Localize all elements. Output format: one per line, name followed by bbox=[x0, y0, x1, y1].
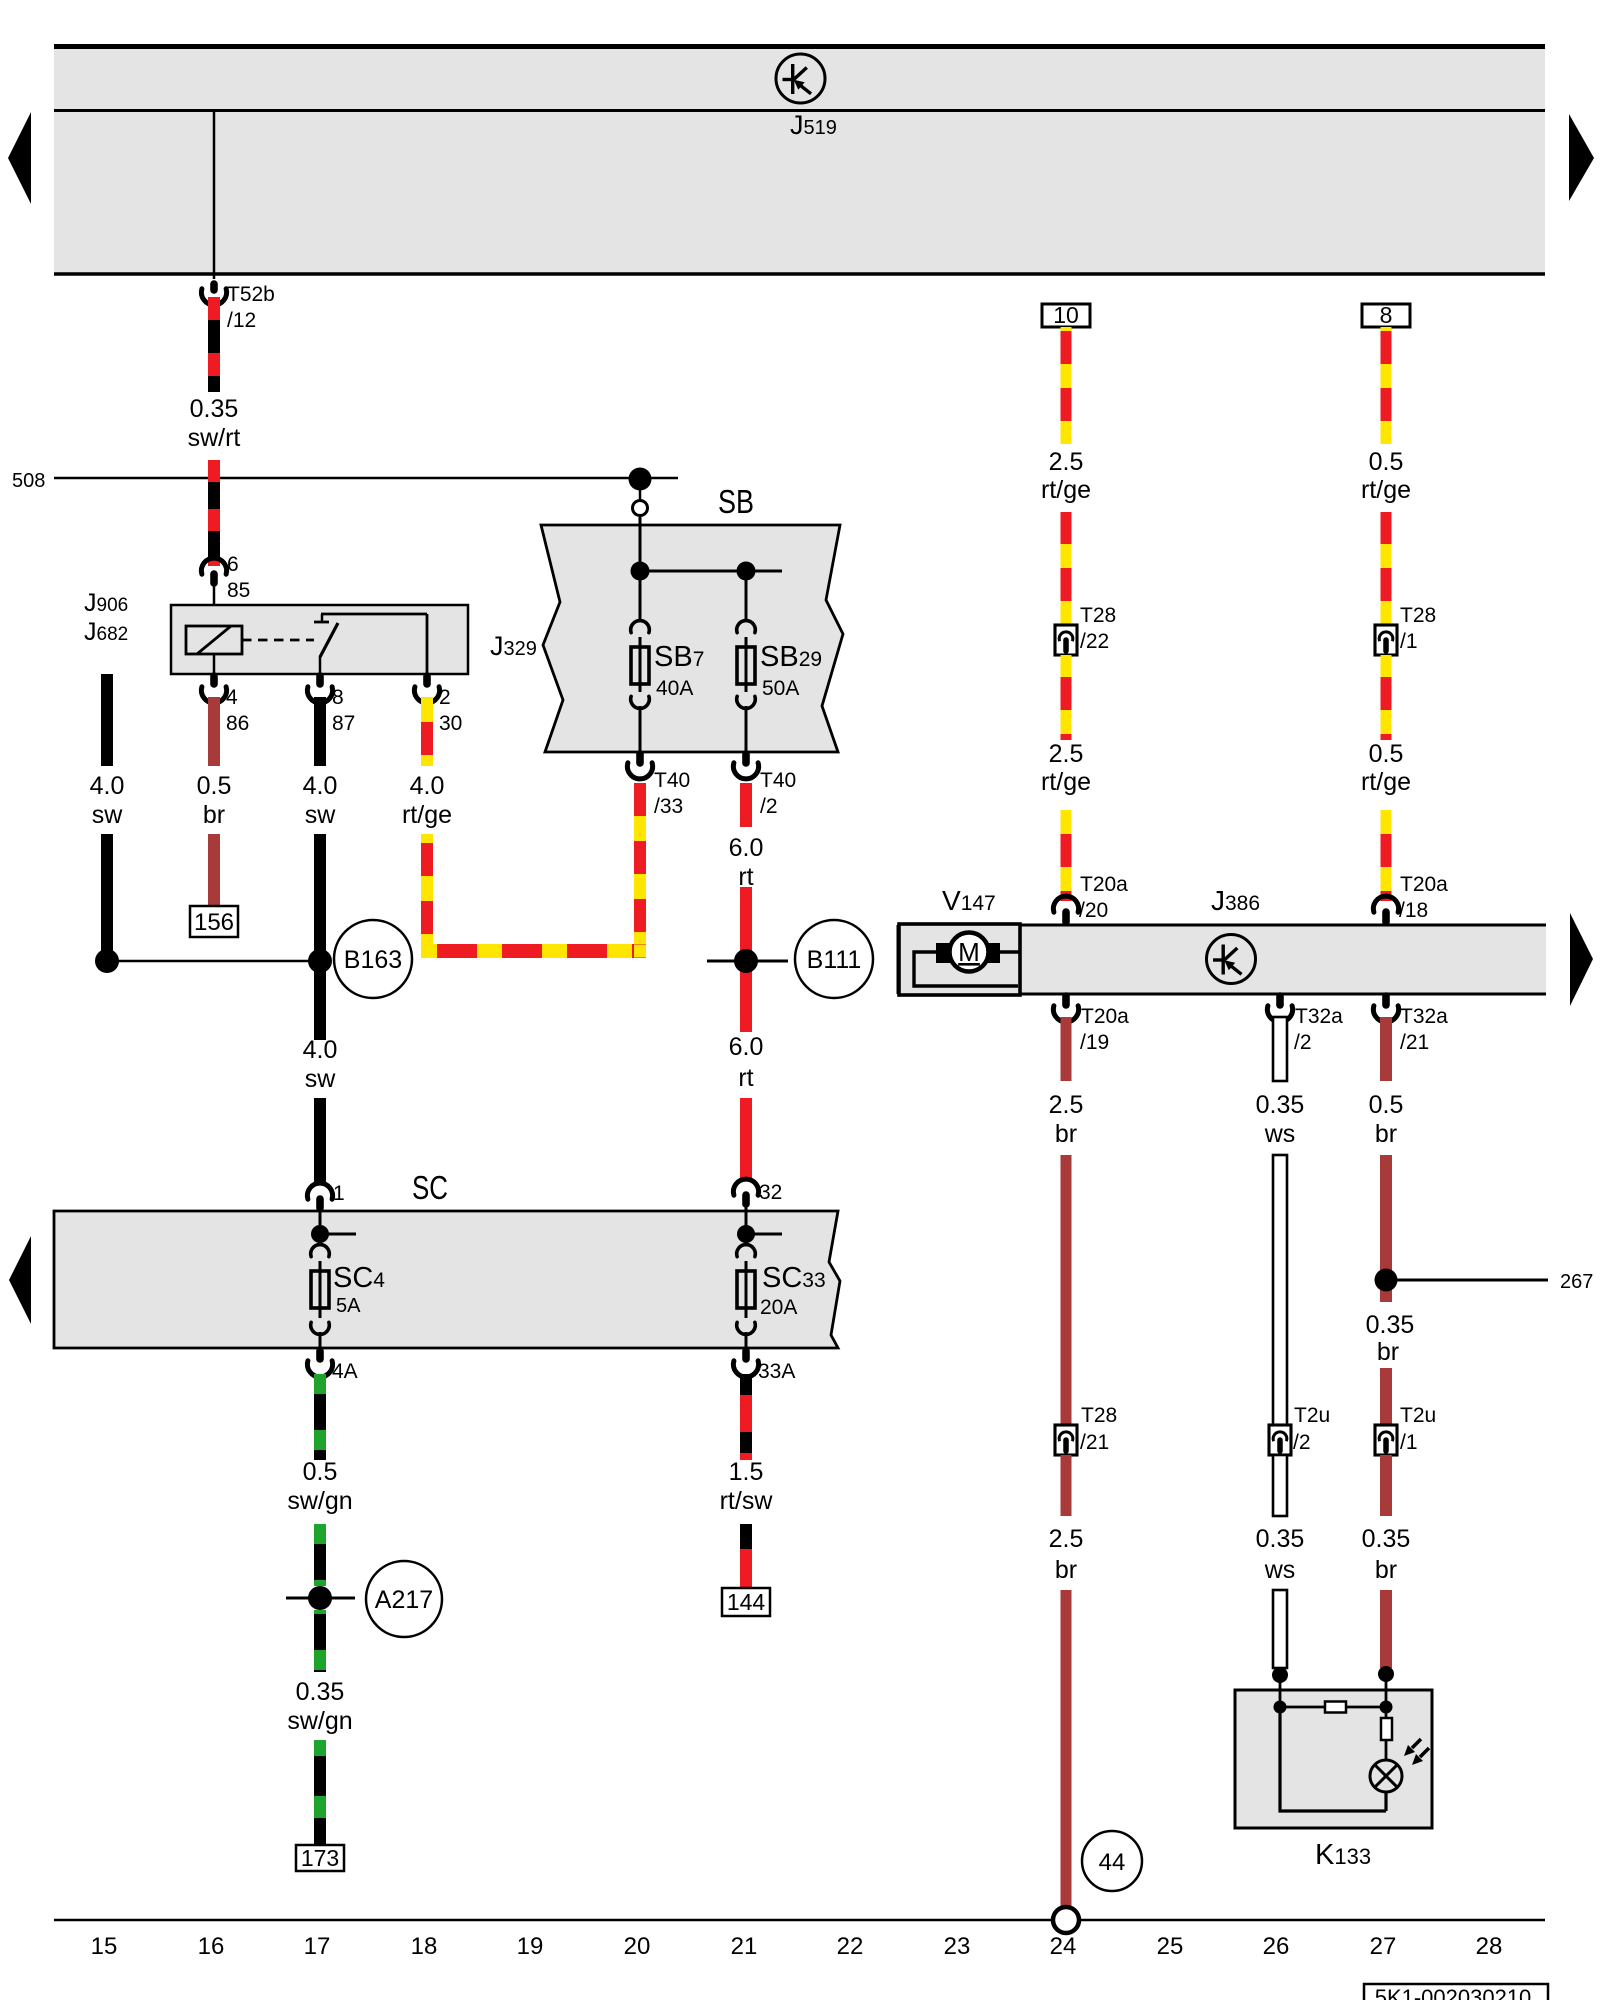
wire 0.35 sw/rt (upper) bbox=[208, 297, 220, 392]
svg-text:T20a: T20a bbox=[1080, 873, 1128, 896]
svg-text:144: 144 bbox=[727, 1589, 766, 1615]
open connector circle bbox=[633, 501, 648, 516]
wire 2.5 rt/ge seg4 bbox=[1061, 810, 1072, 901]
terminal box 8 bbox=[1362, 304, 1410, 327]
internal supply rail in SB bbox=[639, 515, 642, 622]
svg-text:4A: 4A bbox=[332, 1360, 358, 1383]
motor symbol V147 bbox=[999, 950, 1019, 953]
svg-text:rt: rt bbox=[738, 863, 753, 891]
svg-text:T2u: T2u bbox=[1294, 1404, 1330, 1427]
svg-text:32: 32 bbox=[759, 1181, 782, 1204]
svg-text:SB: SB bbox=[718, 483, 754, 520]
svg-text:0.35: 0.35 bbox=[296, 1678, 345, 1706]
svg-text:/19: /19 bbox=[1080, 1031, 1109, 1054]
wire 0.5 rt/ge seg3 bbox=[1381, 655, 1392, 740]
svg-text:/22: /22 bbox=[1080, 630, 1109, 653]
svg-text:B111: B111 bbox=[807, 946, 862, 974]
svg-text:T28: T28 bbox=[1400, 604, 1436, 627]
svg-text:/2: /2 bbox=[1293, 1431, 1311, 1454]
svg-text:0.5: 0.5 bbox=[197, 772, 232, 800]
terminal box 173 bbox=[296, 1845, 344, 1871]
connector T52b/12 bbox=[210, 284, 218, 290]
svg-text:T32a: T32a bbox=[1400, 1005, 1448, 1028]
svg-text:0.35: 0.35 bbox=[1366, 1311, 1415, 1339]
connector T20a/18 bbox=[1373, 896, 1398, 912]
inline connector T28/22 bbox=[1055, 625, 1077, 655]
svg-text:rt/ge: rt/ge bbox=[1361, 476, 1411, 504]
svg-text:6.0: 6.0 bbox=[729, 1033, 764, 1061]
inline connector T2u/2 bbox=[1269, 1425, 1291, 1455]
wire 1.5 rt/sw bbox=[740, 1374, 752, 1460]
svg-text:27: 27 bbox=[1370, 1933, 1397, 1960]
connector T32a/21 bbox=[1382, 996, 1390, 1005]
svg-text:19: 19 bbox=[517, 1933, 544, 1960]
svg-text:rt/sw: rt/sw bbox=[720, 1487, 774, 1515]
svg-text:T20a: T20a bbox=[1081, 1005, 1129, 1028]
svg-text:0.5: 0.5 bbox=[303, 1458, 338, 1486]
node br to K133 bbox=[1378, 1666, 1394, 1682]
node 44 bbox=[1082, 1831, 1142, 1891]
wire 0.35 ws bbox=[1273, 1017, 1287, 1081]
svg-text:0.5: 0.5 bbox=[1369, 1091, 1404, 1119]
left arrow (top box) bbox=[8, 112, 31, 204]
fuse SB7 40A bbox=[631, 621, 650, 633]
fuse SC4 5A bbox=[311, 1225, 329, 1243]
bottom grid line bbox=[54, 1919, 1545, 1922]
wire 4.0 rt/ge horizontal run bbox=[421, 944, 646, 958]
svg-text:sw: sw bbox=[305, 1065, 337, 1093]
node on 508 line bbox=[629, 468, 652, 491]
svg-text:/1: /1 bbox=[1400, 630, 1418, 653]
resistor (top) bbox=[1325, 1702, 1346, 1713]
svg-text:16: 16 bbox=[198, 1933, 225, 1960]
right arrow (top box) bbox=[1569, 114, 1594, 201]
svg-text:T28: T28 bbox=[1081, 1404, 1117, 1427]
connector T32a/2 bbox=[1276, 996, 1284, 1005]
svg-text:0.35: 0.35 bbox=[1256, 1525, 1305, 1553]
control unit symbol in J386 bbox=[1207, 935, 1256, 984]
relay box J329 bbox=[171, 605, 468, 674]
svg-text:156: 156 bbox=[194, 909, 234, 936]
svg-text:T20a: T20a bbox=[1400, 873, 1448, 896]
svg-text:4.0: 4.0 bbox=[90, 772, 125, 800]
svg-text:4.0: 4.0 bbox=[303, 1036, 338, 1064]
wire from J519 to T52b bbox=[213, 112, 216, 279]
lamp unit K133 box bbox=[1235, 1690, 1432, 1828]
junction B111 bbox=[707, 960, 788, 963]
wire 4.0 sw (left, J906/J682) upper bbox=[101, 674, 113, 766]
svg-text:17: 17 bbox=[304, 1933, 331, 1960]
wire 0.5 br (pin 86) bbox=[208, 697, 220, 766]
svg-text:6.0: 6.0 bbox=[729, 834, 764, 862]
svg-text:J386: J386 bbox=[1211, 885, 1260, 916]
wire 0.35 sw/rt (lower) bbox=[208, 460, 220, 566]
internal circuit K133 bbox=[1274, 1701, 1287, 1714]
wire 2.5 rt/ge seg2 bbox=[1061, 512, 1072, 625]
svg-text:0.35: 0.35 bbox=[1256, 1091, 1305, 1119]
wire 4.0 sw (pin 87) upper bbox=[314, 697, 326, 766]
svg-text:/2: /2 bbox=[1294, 1031, 1312, 1054]
svg-text:T32a: T32a bbox=[1295, 1005, 1343, 1028]
svg-text:8: 8 bbox=[1380, 302, 1393, 328]
svg-text:24: 24 bbox=[1050, 1933, 1077, 1960]
svg-text:sw: sw bbox=[92, 801, 124, 829]
svg-text:22: 22 bbox=[837, 1933, 864, 1960]
svg-text:4: 4 bbox=[226, 686, 238, 709]
svg-text:/12: /12 bbox=[227, 309, 256, 332]
right arrow (J386) bbox=[1570, 913, 1593, 1006]
svg-text:86: 86 bbox=[226, 712, 249, 735]
wire 0.5 rt/ge seg4 bbox=[1381, 810, 1392, 901]
svg-text:ws: ws bbox=[1264, 1120, 1296, 1148]
svg-text:T52b: T52b bbox=[227, 283, 275, 306]
svg-text:J329: J329 bbox=[490, 631, 537, 661]
connector T40/2 bbox=[742, 754, 750, 763]
svg-text:T28: T28 bbox=[1080, 604, 1116, 627]
wire 6.0 rt (upper) bbox=[740, 783, 752, 827]
svg-text:267: 267 bbox=[1560, 1271, 1593, 1293]
terminal box 144 bbox=[722, 1588, 770, 1616]
svg-text:rt/ge: rt/ge bbox=[402, 801, 452, 829]
svg-text:br: br bbox=[1375, 1556, 1397, 1584]
svg-text:br: br bbox=[1375, 1120, 1397, 1148]
svg-text:SC: SC bbox=[412, 1169, 448, 1206]
svg-text:15: 15 bbox=[91, 1933, 118, 1960]
svg-text:V147: V147 bbox=[942, 885, 996, 916]
svg-text:25: 25 bbox=[1157, 1933, 1184, 1960]
svg-text:/33: /33 bbox=[654, 795, 683, 818]
svg-text:2.5: 2.5 bbox=[1049, 1091, 1084, 1119]
wire 4.0 rt/ge (pin 30) upper bbox=[421, 697, 433, 766]
svg-text:0.5: 0.5 bbox=[1369, 740, 1404, 768]
terminal circle (bottom) bbox=[1053, 1907, 1079, 1933]
connector 33A bbox=[742, 1351, 750, 1359]
left arrow (SC) bbox=[9, 1236, 31, 1324]
node dot left bbox=[95, 949, 119, 973]
connector 85 (relay top) bbox=[201, 558, 226, 574]
series resistor (LED branch) bbox=[1385, 1707, 1388, 1719]
connector T20a/20 bbox=[1053, 896, 1078, 912]
connector pin 4 bbox=[210, 676, 218, 684]
svg-text:0.5: 0.5 bbox=[1369, 448, 1404, 476]
relay switch contact bbox=[319, 656, 322, 674]
svg-text:br: br bbox=[1055, 1120, 1077, 1148]
svg-text:sw: sw bbox=[305, 801, 337, 829]
connector T20a/19 bbox=[1062, 996, 1070, 1005]
svg-text:rt/ge: rt/ge bbox=[1041, 768, 1091, 796]
relay dashed actuation line bbox=[242, 639, 314, 642]
svg-text:/21: /21 bbox=[1080, 1431, 1109, 1454]
node 267 bbox=[1375, 1269, 1398, 1292]
svg-text:/21: /21 bbox=[1400, 1031, 1429, 1054]
motor box V147 bbox=[899, 924, 1020, 995]
svg-text:br: br bbox=[1377, 1338, 1399, 1366]
svg-text:28: 28 bbox=[1476, 1933, 1503, 1960]
svg-text:/20: /20 bbox=[1079, 899, 1108, 922]
svg-text:5K1-002030210: 5K1-002030210 bbox=[1375, 1985, 1532, 2000]
svg-text:sw/rt: sw/rt bbox=[188, 424, 241, 452]
terminal box 156 bbox=[190, 906, 238, 937]
svg-text:26: 26 bbox=[1263, 1933, 1290, 1960]
connector T40/33 bbox=[636, 754, 644, 763]
svg-text:sw/gn: sw/gn bbox=[287, 1707, 352, 1735]
svg-text:33A: 33A bbox=[758, 1360, 795, 1383]
fuse box SB bbox=[541, 525, 843, 752]
lamp arrows bbox=[1404, 1739, 1429, 1765]
connector 4A bbox=[316, 1351, 324, 1359]
svg-text:1: 1 bbox=[333, 1182, 345, 1205]
svg-text:18: 18 bbox=[411, 1933, 438, 1960]
fuse SC33 20A bbox=[737, 1225, 755, 1243]
svg-text:23: 23 bbox=[944, 1933, 971, 1960]
svg-text:1.5: 1.5 bbox=[729, 1458, 764, 1486]
wire 0.35 sw/gn bbox=[314, 1610, 326, 1672]
wire 4.0 sw (left) lower bbox=[101, 834, 113, 961]
svg-text:508: 508 bbox=[12, 470, 45, 492]
control unit box J386 bbox=[898, 925, 1546, 994]
svg-text:br: br bbox=[203, 801, 225, 829]
svg-text:4.0: 4.0 bbox=[410, 772, 445, 800]
svg-text:J682: J682 bbox=[84, 618, 128, 646]
svg-text:M: M bbox=[958, 937, 980, 967]
svg-text:T40: T40 bbox=[654, 769, 690, 792]
wire 0.5 rt/ge seg1 bbox=[1381, 327, 1392, 444]
terminal box 10 bbox=[1042, 304, 1090, 327]
connector pin 32 bbox=[733, 1179, 758, 1195]
svg-text:173: 173 bbox=[301, 1845, 339, 1871]
wire 4.0 rt/ge vertical lower bbox=[421, 834, 433, 957]
part number box bbox=[1364, 1984, 1548, 2000]
svg-text:30: 30 bbox=[439, 712, 462, 735]
connector pin 8 bbox=[316, 676, 324, 684]
wire 6.0 rt to SC pin 32 bbox=[740, 1098, 752, 1179]
svg-text:K133: K133 bbox=[1315, 1839, 1371, 1871]
svg-text:rt/ge: rt/ge bbox=[1361, 768, 1411, 796]
svg-text:5A: 5A bbox=[336, 1295, 361, 1317]
svg-text:2.5: 2.5 bbox=[1049, 1525, 1084, 1553]
junction A217 bbox=[308, 1586, 332, 1610]
lamp symbol K133 bbox=[1370, 1760, 1402, 1792]
svg-text:20: 20 bbox=[624, 1933, 651, 1960]
inline connector T28/21 bbox=[1055, 1425, 1077, 1455]
svg-text:T40: T40 bbox=[760, 769, 796, 792]
svg-text:/18: /18 bbox=[1399, 899, 1428, 922]
inline connector T2u/1 bbox=[1375, 1425, 1397, 1455]
relay coil bbox=[186, 626, 242, 654]
svg-text:A217: A217 bbox=[375, 1586, 433, 1614]
fuse box SC bbox=[54, 1211, 840, 1348]
svg-text:85: 85 bbox=[227, 579, 250, 602]
svg-text:T2u: T2u bbox=[1400, 1404, 1436, 1427]
svg-text:10: 10 bbox=[1053, 302, 1079, 328]
svg-text:2: 2 bbox=[439, 686, 451, 709]
svg-text:87: 87 bbox=[332, 712, 355, 735]
svg-text:8: 8 bbox=[332, 686, 344, 709]
svg-text:21: 21 bbox=[731, 1933, 758, 1960]
wire 0.5 sw/gn bbox=[314, 1374, 326, 1460]
wire 2.5 br bbox=[1061, 1017, 1072, 1081]
wire 4.0 rt/ge vertical from SB7 bbox=[634, 783, 646, 944]
svg-text:4.0: 4.0 bbox=[303, 772, 338, 800]
svg-text:20A: 20A bbox=[760, 1296, 797, 1319]
svg-text:sw/gn: sw/gn bbox=[287, 1487, 352, 1515]
junction B163 bbox=[107, 960, 320, 963]
wire 4.0 sw to SC pin 1 bbox=[314, 1098, 326, 1183]
svg-text:B163: B163 bbox=[344, 946, 402, 974]
wire 2.5 rt/ge seg1 bbox=[1061, 327, 1072, 444]
svg-text:/1: /1 bbox=[1400, 1431, 1418, 1454]
grid numbers bbox=[91, 1933, 1503, 1960]
svg-text:rt/ge: rt/ge bbox=[1041, 476, 1091, 504]
svg-text:/2: /2 bbox=[760, 795, 778, 818]
connector pin 1 bbox=[307, 1183, 332, 1199]
svg-text:0.35: 0.35 bbox=[1362, 1525, 1411, 1553]
fuse SB29 50A bbox=[737, 621, 756, 633]
svg-text:40A: 40A bbox=[656, 677, 693, 700]
svg-text:44: 44 bbox=[1099, 1849, 1126, 1876]
svg-text:ws: ws bbox=[1264, 1556, 1296, 1584]
wire 0.5 br (right) bbox=[1380, 1017, 1392, 1081]
svg-text:0.35: 0.35 bbox=[190, 395, 239, 423]
svg-text:2.5: 2.5 bbox=[1049, 448, 1084, 476]
svg-text:rt: rt bbox=[738, 1064, 753, 1092]
control unit symbol in J519 bbox=[776, 54, 825, 103]
node 508 wire bbox=[54, 477, 678, 480]
svg-text:br: br bbox=[1055, 1556, 1077, 1584]
wire 0.5 rt/ge seg2 bbox=[1381, 512, 1392, 625]
svg-text:2.5: 2.5 bbox=[1049, 740, 1084, 768]
inline connector T28/1 bbox=[1375, 625, 1397, 655]
left branch wire bbox=[1280, 1707, 1386, 1811]
wire 2.5 rt/ge seg3 bbox=[1061, 655, 1072, 740]
svg-text:J906: J906 bbox=[84, 589, 128, 617]
svg-text:50A: 50A bbox=[762, 677, 799, 700]
node ws to K133 bbox=[1272, 1667, 1288, 1683]
connector pin 2 bbox=[423, 676, 431, 684]
control unit J519 box bbox=[54, 45, 1545, 275]
